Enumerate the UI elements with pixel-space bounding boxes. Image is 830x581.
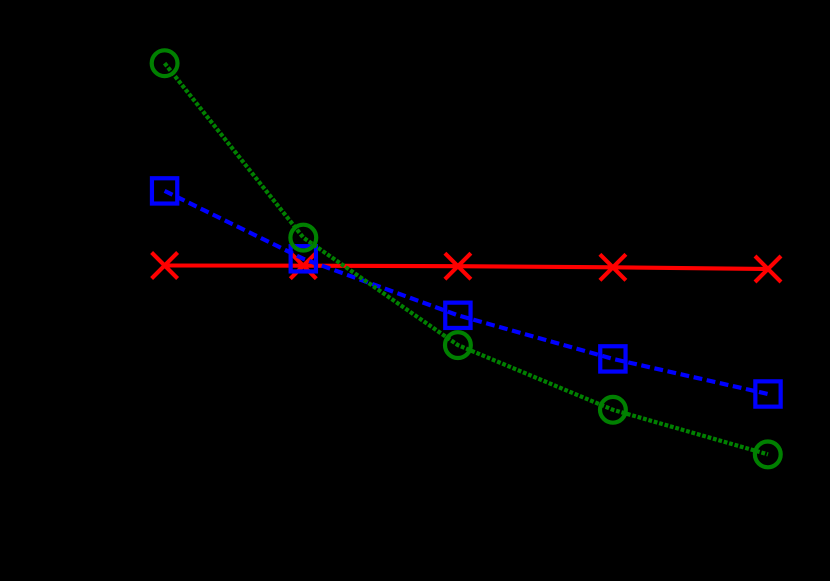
- red X marker 1: [152, 253, 178, 279]
- green circle marker 5: [755, 442, 781, 468]
- green circle marker 2: [290, 225, 316, 251]
- red X marker 3: [445, 253, 471, 279]
- red X marker 5: [755, 256, 781, 282]
- blue square marker 2: [291, 246, 316, 271]
- blue square marker 3: [445, 303, 470, 328]
- green dotted series line: [165, 63, 768, 454]
- blue square marker 1: [152, 178, 177, 203]
- green circle marker 1: [152, 50, 178, 76]
- green circle marker 3: [445, 332, 471, 358]
- red X marker 4: [600, 254, 626, 280]
- red X marker 2: [290, 253, 316, 279]
- blue dashed series line: [165, 191, 768, 394]
- red solid series line: [165, 266, 768, 270]
- blue square marker 4: [600, 346, 625, 371]
- green circle marker 4: [600, 397, 626, 423]
- blue square marker 5: [755, 381, 780, 406]
